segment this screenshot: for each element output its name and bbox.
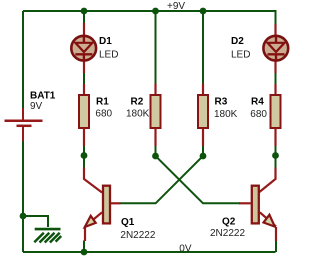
- wire ground branch: [23, 216, 48, 227]
- wire Q2 emitter to bottom rail: [275, 241, 277, 253]
- wire R3 drop from top rail: [202, 11, 204, 84]
- battery BAT1: [5, 108, 43, 141]
- LED D2: [263, 24, 288, 73]
- wire R4 bottom to Q2 collector: [275, 146, 277, 168]
- resistor R2: [151, 84, 161, 147]
- node R3 bottom: [200, 153, 207, 160]
- node R4 bottom collector: [272, 152, 279, 159]
- svg-text:2N2222: 2N2222: [120, 230, 155, 241]
- svg-text:+9V: +9V: [167, 1, 185, 12]
- svg-text:LED: LED: [231, 50, 250, 61]
- node R1 bottom collector: [81, 152, 88, 159]
- wire D1 stub from top rail: [83, 11, 85, 24]
- wire R1 bottom to Q1 collector: [83, 146, 85, 168]
- svg-text:LED: LED: [99, 50, 118, 61]
- svg-text:2N2222: 2N2222: [210, 228, 245, 239]
- wire cross-couple R2 to Q2 base: [156, 146, 241, 204]
- wire cross-couple R3 to Q1 base: [120, 146, 203, 204]
- ground: [34, 229, 61, 242]
- svg-text:BAT1: BAT1: [30, 91, 56, 102]
- svg-text:R4: R4: [251, 96, 264, 107]
- svg-text:Q1: Q1: [121, 217, 135, 228]
- svg-text:680: 680: [95, 109, 112, 120]
- resistor R4: [271, 84, 281, 146]
- svg-text:180K: 180K: [126, 109, 150, 120]
- node R2 bottom: [152, 153, 159, 160]
- resistor R3: [198, 84, 208, 147]
- wire R2 drop from top rail: [155, 11, 157, 84]
- svg-text:D1: D1: [99, 36, 112, 47]
- wire right drop to D2: [275, 10, 277, 24]
- wire D2 to R4: [275, 73, 277, 85]
- svg-text:R3: R3: [215, 96, 228, 107]
- transistor Q2: [239, 168, 276, 242]
- LED D1: [71, 23, 96, 73]
- svg-text:9V: 9V: [30, 101, 43, 112]
- node top rail D1: [81, 8, 88, 15]
- wire Q1 emitter to bottom rail: [83, 241, 85, 253]
- transistor Q1: [84, 168, 121, 242]
- svg-text:D2: D2: [231, 36, 244, 47]
- wire bottom rail 0V: [23, 251, 276, 253]
- svg-text:R1: R1: [96, 96, 109, 107]
- wire D1 to R1: [83, 73, 85, 85]
- svg-text:680: 680: [250, 109, 267, 120]
- wire top rail +9V: [23, 10, 276, 12]
- node top rail R2: [152, 8, 159, 15]
- svg-text:Q2: Q2: [222, 216, 236, 227]
- svg-text:R2: R2: [131, 96, 144, 107]
- node Q1 emitter bottom: [81, 249, 88, 256]
- node top rail R3: [200, 8, 207, 15]
- node ground tap: [20, 213, 27, 220]
- svg-text:180K: 180K: [214, 109, 238, 120]
- wire left rail lower segment: [22, 141, 24, 252]
- svg-text:0V: 0V: [179, 243, 192, 254]
- resistor R1: [79, 84, 89, 146]
- wire battery top segment: [22, 11, 24, 108]
